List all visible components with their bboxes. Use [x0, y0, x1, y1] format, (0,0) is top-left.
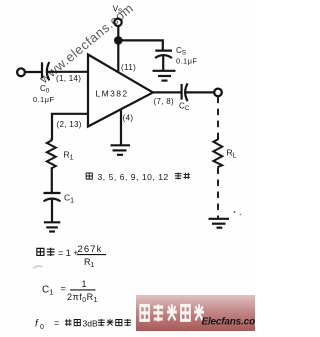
svg-text:3dB: 3dB — [83, 318, 98, 328]
svg-text:(7, 8): (7, 8) — [154, 97, 175, 106]
svg-text:0.1μF: 0.1μF — [176, 57, 197, 66]
svg-text:C1: C1 — [42, 285, 53, 297]
svg-text:C1: C1 — [64, 193, 74, 205]
terminal VS — [114, 19, 121, 26]
wire VS to junction — [117, 26, 119, 40]
formula f0 — [35, 318, 131, 331]
svg-text:=: = — [61, 284, 66, 294]
note pins floating — [86, 172, 190, 182]
svg-text:CC: CC — [179, 102, 190, 113]
svg-text:R1: R1 — [84, 257, 95, 269]
capacitor C0 — [42, 62, 49, 80]
svg-text:(2, 13): (2, 13) — [57, 120, 82, 129]
wire junction to CS — [118, 40, 163, 50]
ground (CS) — [153, 71, 176, 81]
terminal output — [214, 89, 222, 97]
ground (RL) — [209, 219, 230, 228]
svg-text:0.1μF: 0.1μF — [33, 95, 54, 104]
svg-text:R1: R1 — [64, 150, 74, 162]
pen squiggle under gain formula — [33, 266, 43, 268]
svg-text:0: 0 — [40, 324, 44, 331]
svg-text:LM382: LM382 — [96, 89, 129, 99]
speck marks — [234, 211, 236, 213]
svg-text:= 1 +: = 1 + — [58, 248, 79, 258]
svg-text:Elecfans.com: Elecfans.com — [202, 317, 256, 328]
capacitor C1 — [44, 193, 61, 222]
resistor RL — [213, 137, 222, 167]
wire (dashed) output to RL — [217, 97, 219, 138]
watermark chinese text — [140, 304, 204, 321]
svg-text:2πf0R1: 2πf0R1 — [67, 292, 98, 304]
wire output to CC — [152, 91, 181, 93]
op-amp U1 LM382 — [88, 55, 153, 127]
wire R1 to C1 — [51, 168, 53, 192]
svg-text:(1, 14): (1, 14) — [56, 74, 81, 83]
capacitor CC — [182, 83, 188, 101]
formula C1 — [42, 279, 98, 304]
svg-text:RL: RL — [227, 148, 237, 160]
formula gain — [37, 244, 106, 269]
wire (dashed) RL to ground — [217, 168, 219, 219]
svg-text:CS: CS — [176, 46, 187, 57]
svg-text:(4): (4) — [123, 114, 134, 123]
wire pin 2,13 to R1 — [52, 114, 88, 140]
junction dot — [114, 36, 123, 45]
wire CC to output terminal — [186, 91, 214, 93]
svg-text:(11): (11) — [121, 63, 136, 72]
ground (pin 4) — [111, 145, 131, 155]
svg-text:267k: 267k — [78, 244, 103, 255]
ground (C1) — [44, 222, 61, 231]
resistor R1 — [47, 138, 56, 169]
svg-text:1: 1 — [82, 279, 87, 289]
svg-text:3, 5, 6, 9, 10, 12: 3, 5, 6, 9, 10, 12 — [98, 172, 169, 182]
wire pin 4 to ground — [120, 109, 122, 145]
terminal input — [17, 68, 25, 76]
wire junction to pin 11 — [117, 40, 119, 71]
wire C0 to pin 1,14 — [47, 71, 88, 73]
capacitor CS — [155, 51, 172, 71]
wire input to C0 — [25, 71, 42, 73]
svg-text:f: f — [35, 319, 39, 330]
svg-text:=: = — [54, 318, 59, 328]
